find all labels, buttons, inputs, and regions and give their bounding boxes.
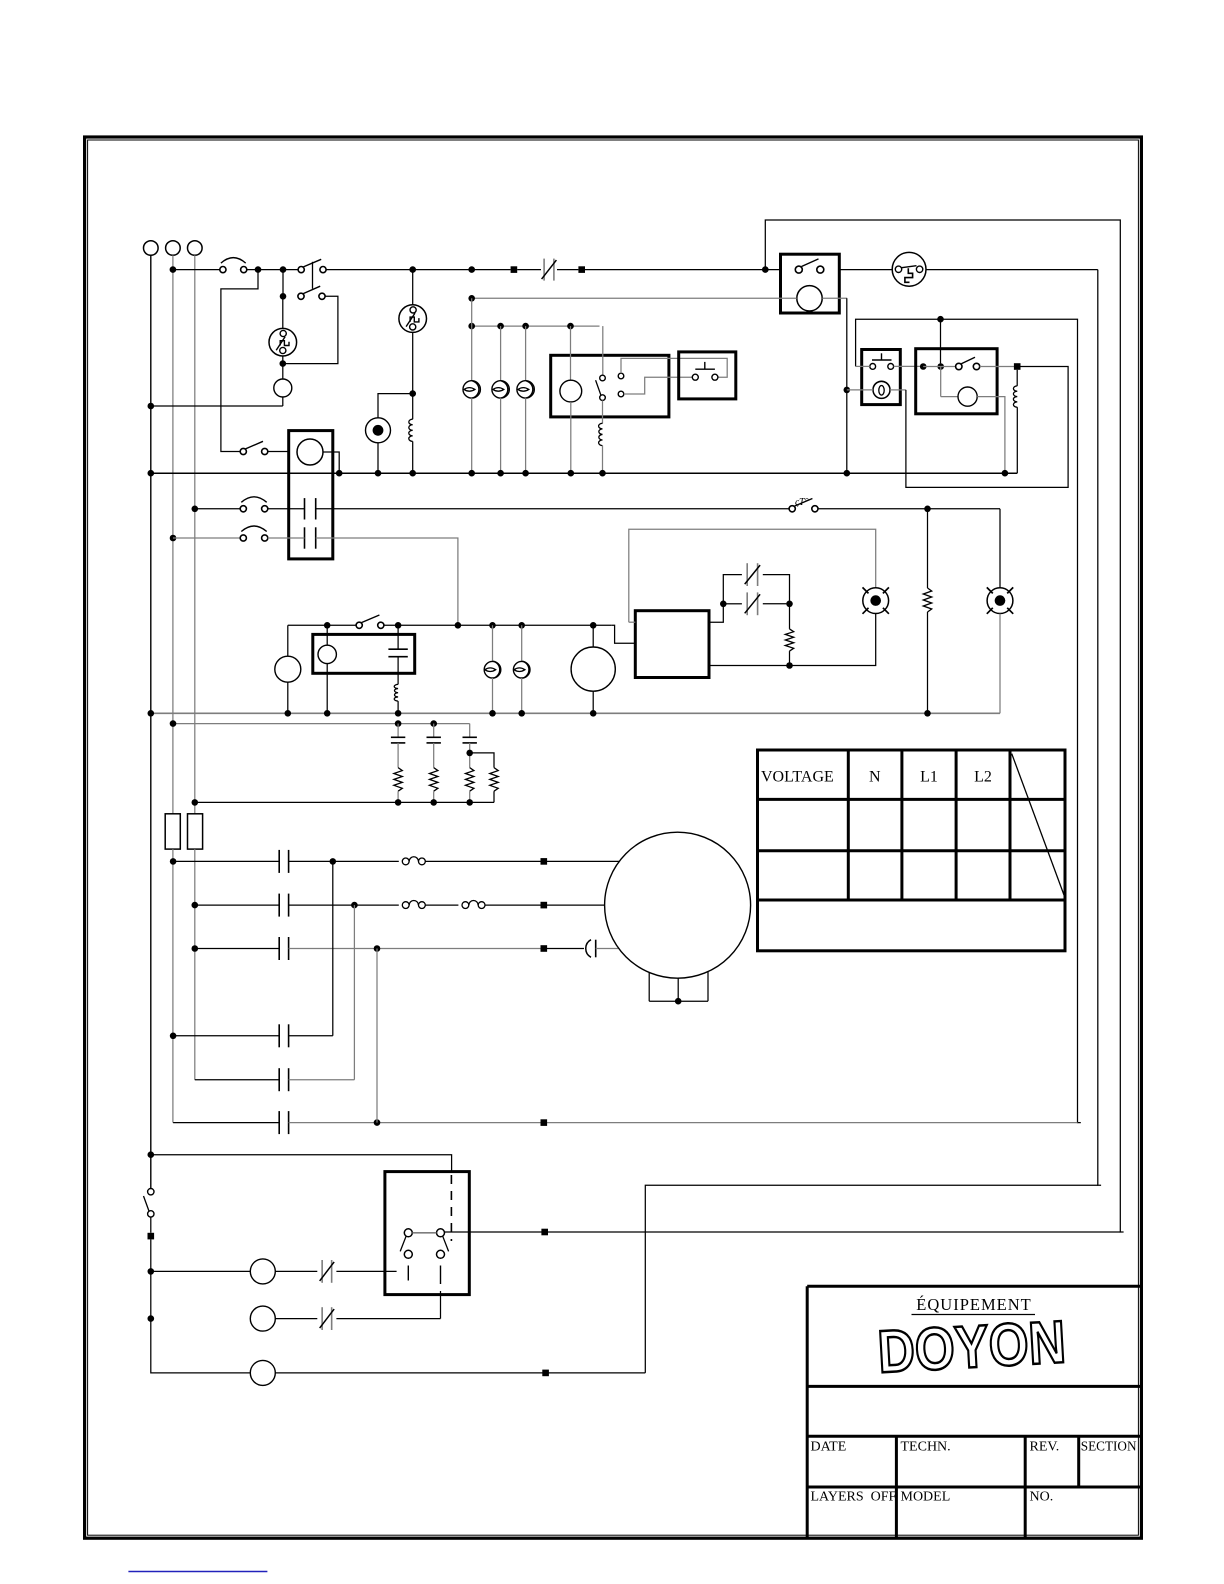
junction dot <box>148 403 155 410</box>
phase capacitor arc <box>586 940 591 958</box>
fuse F1 contacts <box>220 267 226 273</box>
indicator lamp LP3 <box>517 381 534 398</box>
junction dot <box>568 470 575 477</box>
junction dot <box>844 470 851 477</box>
plug pin right <box>916 266 922 272</box>
wire <box>377 443 379 473</box>
terminal square <box>148 1233 155 1240</box>
NC contact bars mid <box>746 592 748 615</box>
wire <box>440 1291 442 1319</box>
keyswitch right contact <box>888 364 894 370</box>
title block line 2 <box>807 1435 1141 1438</box>
cam switch bridge <box>412 1232 436 1234</box>
svg-text:LAYERS OFF: LAYERS OFF <box>811 1490 897 1505</box>
junction dot <box>518 710 525 717</box>
voltage table row line 1 <box>758 798 1066 801</box>
wire <box>282 270 284 294</box>
cam switch blade right <box>443 1236 449 1251</box>
contactor contact K-row2 <box>304 527 306 548</box>
title block divider v2 <box>1024 1436 1027 1538</box>
wire <box>289 904 399 906</box>
junction dot <box>280 266 287 273</box>
wire <box>172 849 174 1123</box>
voltage table col line 4 <box>1009 750 1012 900</box>
wire <box>151 1319 251 1373</box>
wire <box>839 269 892 271</box>
relay K1 aux bottom contact <box>618 391 624 397</box>
wire thermostat drop <box>846 298 848 473</box>
wire lamp3 return <box>645 1185 1098 1373</box>
wire <box>471 298 473 380</box>
contactor contact r1 bars <box>278 850 280 873</box>
wire heater loop <box>629 529 876 622</box>
pushbutton box PB1 <box>679 352 736 399</box>
terminal circle N <box>166 241 181 256</box>
wire <box>999 509 1001 588</box>
wire <box>326 664 328 714</box>
indicator lamp LP2 <box>492 381 509 398</box>
inductor coil L-K3 <box>394 684 398 701</box>
junction dot <box>522 470 529 477</box>
terminal square <box>541 945 548 952</box>
pilot light P2 <box>275 656 301 682</box>
junction dot <box>937 363 944 370</box>
switch S1b contacts <box>298 293 304 299</box>
wire <box>412 270 414 305</box>
wire <box>353 905 355 1080</box>
wire <box>525 398 527 473</box>
title block line 3 <box>807 1486 1141 1489</box>
wire <box>150 1217 152 1233</box>
wire <box>471 398 473 473</box>
wire <box>521 625 523 661</box>
wire <box>412 441 414 473</box>
junction dot <box>148 710 155 717</box>
wire <box>195 508 241 510</box>
wire <box>268 451 289 453</box>
terminal square <box>511 266 518 273</box>
contactor contact r2 bars <box>278 894 280 917</box>
voltage table diagonal <box>1012 754 1065 897</box>
wire <box>433 724 435 738</box>
keyswitch bar <box>872 359 892 361</box>
cam pin left <box>407 1266 409 1281</box>
wire <box>378 394 410 418</box>
relay K3 box <box>313 634 415 673</box>
junction dot <box>192 902 199 909</box>
resistor R1 <box>394 768 402 792</box>
junction dot <box>455 622 462 629</box>
junction dot <box>590 710 597 717</box>
wire <box>289 948 544 950</box>
wire <box>397 743 399 768</box>
wire <box>397 701 399 713</box>
overload OL3 <box>462 902 469 909</box>
junction dot <box>395 799 402 806</box>
thermostat switch contacts <box>795 266 802 273</box>
terminal square <box>541 858 548 865</box>
terminal square <box>1014 363 1021 370</box>
wire neutral return <box>151 405 283 407</box>
NC contact bars top <box>746 563 748 586</box>
wire <box>268 508 305 510</box>
junction dot <box>324 710 331 717</box>
switch S-row contacts <box>356 622 362 628</box>
wire <box>151 1270 251 1272</box>
wire <box>469 791 471 802</box>
breaker contact bars <box>543 259 545 281</box>
terminal square <box>541 1229 548 1236</box>
wire <box>173 537 240 539</box>
wire upper return <box>765 220 1123 1232</box>
junction dot <box>395 622 402 629</box>
wire aux top <box>621 358 727 377</box>
wire <box>763 603 787 605</box>
wire <box>195 1079 279 1081</box>
signal lamp SL3 <box>250 1360 275 1385</box>
thermostat switch blade <box>802 259 819 267</box>
fuse F3 arc <box>241 526 266 532</box>
wire <box>287 682 289 713</box>
wire <box>485 904 605 906</box>
junction dot <box>466 799 473 806</box>
junction dot <box>468 295 475 302</box>
wire <box>493 791 495 802</box>
wire to contactor switch <box>221 270 258 452</box>
junction dot <box>255 266 262 273</box>
junction dot <box>192 506 199 513</box>
wire <box>195 948 279 950</box>
pushbutton PB1 right contact <box>712 374 718 380</box>
junction dot <box>170 1033 177 1040</box>
svg-text:N: N <box>869 769 881 786</box>
wire <box>247 269 299 271</box>
fuse F3 contacts <box>240 535 246 541</box>
wire <box>709 607 723 622</box>
wire <box>709 614 876 666</box>
wire <box>547 948 584 950</box>
contactor C1 box <box>289 431 333 559</box>
wire <box>412 332 414 419</box>
wire <box>336 1270 396 1272</box>
resistor R3 <box>466 768 474 792</box>
switch S2 blade <box>246 441 264 449</box>
wire <box>289 1079 355 1081</box>
wire <box>525 326 527 381</box>
wire <box>789 607 791 629</box>
wire <box>1016 407 1018 473</box>
title block frame <box>807 1285 1141 1288</box>
voltage table col line 1 <box>847 750 850 900</box>
junction dot <box>489 622 496 629</box>
plug ground pin <box>905 268 913 282</box>
signal lamp SL1 <box>250 1259 275 1284</box>
wire <box>856 365 870 367</box>
wire <box>336 1318 440 1320</box>
wire <box>326 269 511 271</box>
thermostat sensor circle <box>797 286 822 311</box>
switch S-row blade <box>361 615 379 623</box>
svg-text:L2: L2 <box>974 769 992 786</box>
junction dot <box>324 622 331 629</box>
indicator lamp LP1 <box>463 381 480 398</box>
wire <box>602 326 604 375</box>
wire aux bottom <box>624 377 693 394</box>
relay K1 switch blade <box>596 380 601 395</box>
junction dot <box>192 945 199 952</box>
junction dot <box>489 710 496 717</box>
wire <box>570 402 572 473</box>
wire loop to timer <box>286 296 338 363</box>
defrost limit blade <box>794 499 812 507</box>
svg-text:TECHN.: TECHN. <box>901 1440 951 1455</box>
wire cam output <box>445 1231 1121 1233</box>
wire control feed <box>856 319 1081 1122</box>
wire <box>592 625 594 647</box>
resistor R4 <box>490 768 498 792</box>
wire L1 vertical <box>150 255 152 1188</box>
title block divider v1 <box>895 1436 898 1538</box>
wire <box>822 297 847 299</box>
junction dot <box>148 1315 155 1322</box>
wire <box>927 509 929 588</box>
inductor coil L-K2 <box>1013 386 1017 407</box>
junction dot <box>468 266 475 273</box>
plug blade line <box>902 266 917 268</box>
wire <box>282 296 284 328</box>
wire <box>1016 370 1018 386</box>
wire <box>433 743 435 768</box>
junction dot <box>468 470 475 477</box>
wire <box>602 400 604 423</box>
phase capacitor bar <box>595 940 597 958</box>
relay K1 box <box>551 355 669 417</box>
wire <box>282 356 284 379</box>
keyswitch box KS1 <box>862 350 901 405</box>
wire <box>980 366 1014 368</box>
wire jog into box <box>611 625 635 643</box>
wire <box>384 624 611 626</box>
wire N return right <box>1098 270 1101 1186</box>
control box CB1 <box>635 611 709 678</box>
pushbutton PB1 stem <box>704 362 706 369</box>
relay K1 switch top contact <box>600 375 606 381</box>
terminal circle L1 <box>144 241 159 256</box>
terminal circle L2 <box>188 241 203 256</box>
wire main top line <box>173 269 220 271</box>
wire <box>517 269 541 271</box>
junction dot <box>786 662 793 669</box>
junction dot <box>170 266 177 273</box>
inductor coil L-K1 <box>599 423 603 445</box>
svg-text:REV.: REV. <box>1030 1440 1060 1455</box>
wire <box>926 269 1098 271</box>
junction dot <box>567 323 574 330</box>
signal lamp SL2 <box>250 1306 275 1331</box>
wire <box>940 367 942 397</box>
wire <box>316 538 458 625</box>
wire <box>268 537 305 539</box>
wire NC branch mid <box>726 603 742 605</box>
wire rc feed <box>173 723 470 725</box>
resistor R-drain <box>923 588 931 612</box>
keyswitch left contact <box>870 364 876 370</box>
junction dot <box>192 799 199 806</box>
contactor contact r3 bars <box>278 937 280 960</box>
junction dot <box>430 720 437 727</box>
junction dot <box>409 390 416 397</box>
wire <box>397 625 399 649</box>
terminal square <box>578 266 585 273</box>
wire <box>941 396 958 398</box>
wire <box>332 861 334 1035</box>
wire v4 loop <box>906 367 1068 488</box>
junction dot <box>590 622 597 629</box>
junction dot <box>466 750 473 757</box>
wire <box>521 678 523 713</box>
wire rc return <box>195 801 494 803</box>
contactor contact r6 bars <box>278 1111 280 1134</box>
junction dot <box>374 1119 381 1126</box>
wire bus line 2 <box>151 712 1000 714</box>
voltage table col line 2 <box>900 750 903 900</box>
voltage table row line 3 <box>758 899 1066 902</box>
wire <box>940 319 942 363</box>
wire r4 branch <box>470 753 494 768</box>
junction dot <box>518 622 525 629</box>
contactor contact r5 bars <box>278 1068 280 1091</box>
relay K2 switch contacts <box>956 363 962 369</box>
wire <box>397 657 399 685</box>
wire <box>425 904 458 906</box>
main switch blade <box>144 1196 149 1211</box>
wire <box>500 398 502 473</box>
wire <box>194 849 196 1080</box>
relay K2 coil <box>958 387 977 406</box>
wire <box>323 452 339 470</box>
wire <box>173 860 279 862</box>
switch S1 blade <box>303 259 321 267</box>
wire <box>818 508 1000 510</box>
title block line logo bottom <box>807 1385 1141 1388</box>
junction dot <box>409 266 416 273</box>
relay K1 coil circle <box>560 380 582 402</box>
junction dot <box>170 858 177 865</box>
wire <box>287 625 289 656</box>
thermostat box TH1 <box>781 254 840 313</box>
wire <box>425 860 619 862</box>
switch S1 contacts <box>298 267 304 273</box>
junction dot <box>409 470 416 477</box>
junction dot <box>351 902 358 909</box>
logo EQUIPEMENT underline <box>912 1314 1036 1316</box>
cam switch bottom-right contact <box>437 1250 445 1258</box>
junction dot <box>1002 470 1009 477</box>
junction dot <box>924 710 931 717</box>
svg-text:L1: L1 <box>920 769 938 786</box>
wire <box>289 1035 333 1037</box>
defrost heater H1 <box>883 608 889 614</box>
wire <box>923 366 955 368</box>
terminal square <box>542 1370 549 1377</box>
title block divider v3 <box>1077 1436 1080 1487</box>
keyswitch stem <box>881 353 883 360</box>
svg-text:DATE: DATE <box>811 1440 847 1455</box>
wire <box>592 691 594 713</box>
cam switch blade left <box>400 1236 406 1251</box>
junction dot <box>522 323 529 330</box>
wire <box>275 1372 645 1374</box>
wire row6 <box>289 1122 1078 1124</box>
wire <box>789 651 791 665</box>
switch S1b blade <box>303 286 320 293</box>
fuse FU2 body <box>188 814 203 849</box>
contactor contact r4 bars <box>278 1024 280 1047</box>
NC contact bars lamp2 <box>321 1307 323 1330</box>
capacitor C-K3 plates <box>388 648 407 650</box>
wire N vertical <box>172 255 174 814</box>
wire <box>150 1239 152 1318</box>
fuse FU1 body <box>165 814 180 849</box>
relay K1 switch bottom contact <box>600 395 606 401</box>
junction dot <box>468 323 475 330</box>
indicator lamp LP4 <box>484 661 501 678</box>
main switch contacts <box>148 1189 154 1195</box>
svg-text:SECTION: SECTION <box>1081 1439 1137 1454</box>
voltage table outer <box>758 750 1066 951</box>
relay K2 box <box>916 349 997 414</box>
wire <box>397 724 399 738</box>
timer symbol T2 <box>399 305 427 333</box>
wire coil return <box>977 397 1005 470</box>
junction dot <box>148 470 155 477</box>
resistor R2 <box>430 768 438 792</box>
relay K3 coil <box>318 645 336 663</box>
cam switch top-right contact <box>437 1229 445 1237</box>
defrost timer motor circle <box>571 647 615 691</box>
wire <box>999 614 1001 714</box>
keyswitch lamp <box>873 381 890 398</box>
drawing border frame outer <box>85 137 1142 1538</box>
pushbutton PB1 left contact <box>692 374 698 380</box>
indicator lamp LP5 <box>513 661 530 678</box>
junction dot <box>599 470 606 477</box>
wire <box>289 860 399 862</box>
terminal square <box>541 1119 548 1126</box>
overload OL2 <box>402 902 409 909</box>
wire <box>570 326 572 380</box>
cam pin right <box>440 1266 442 1285</box>
junction dot <box>285 710 292 717</box>
wire <box>469 724 471 738</box>
cam switch top-left contact <box>404 1229 412 1237</box>
wire <box>275 1318 317 1320</box>
motor terminal lines <box>648 972 650 1001</box>
junction dot <box>762 266 769 273</box>
contactor contact K-row1 <box>304 498 306 519</box>
wire <box>282 397 284 406</box>
junction dot <box>148 1151 155 1158</box>
contactor C1 coil circle <box>297 439 323 465</box>
defrost timer box DT1 <box>385 1172 469 1295</box>
cam switch bottom-left contact <box>404 1250 412 1258</box>
svg-text:VOLTAGE: VOLTAGE <box>761 769 834 786</box>
wire <box>151 1155 452 1172</box>
resistor R-nc <box>785 629 793 651</box>
motor M2 circle <box>605 832 751 978</box>
wire <box>492 678 494 713</box>
wire <box>585 269 781 271</box>
